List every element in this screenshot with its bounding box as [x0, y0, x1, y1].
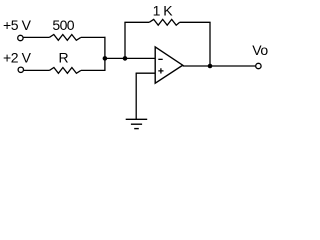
- wire node A to op-amp inverting input: [105, 57, 155, 59]
- resistor 1K feedback: [149, 19, 180, 25]
- terminal Vo: [256, 63, 261, 68]
- wire ground to op-amp non-inverting input: [136, 72, 156, 74]
- svg-text:+2 V: +2 V: [3, 50, 32, 66]
- svg-text:R: R: [59, 50, 69, 66]
- ground symbol: [126, 119, 148, 128]
- resistor R: [49, 68, 81, 74]
- junction output node dot: [208, 64, 213, 69]
- op-amp inverting pin minus sign: [158, 59, 162, 60]
- junction node A dot: [103, 56, 108, 61]
- terminal +2V: [18, 67, 23, 72]
- wire +5V terminal to resistor 500: [23, 36, 49, 38]
- op-amp non-inverting pin plus sign: [158, 68, 163, 73]
- svg-text:Vo: Vo: [252, 42, 268, 58]
- wire +2V terminal to resistor R: [24, 69, 50, 71]
- wire ground vertical drop: [135, 73, 137, 119]
- wire vertical joining +5V and +2V branches: [104, 37, 106, 71]
- wire op-amp output to Vo terminal: [183, 65, 256, 67]
- junction node B dot (feedback tap): [123, 56, 128, 61]
- wire resistor 500 to node corner: [81, 36, 106, 38]
- svg-text:+5 V: +5 V: [3, 17, 32, 33]
- resistor 500: [49, 35, 81, 41]
- wire resistor R to node corner: [81, 69, 106, 71]
- wire feedback left vertical: [124, 22, 126, 58]
- svg-text:500: 500: [52, 17, 74, 33]
- wire feedback right vertical: [209, 22, 211, 66]
- terminal +5V: [18, 35, 23, 40]
- wire feedback top left segment: [124, 21, 149, 23]
- op-amp U1 triangle: [155, 47, 183, 83]
- svg-text:1 K: 1 K: [153, 3, 174, 19]
- wire feedback top right segment: [180, 21, 211, 23]
